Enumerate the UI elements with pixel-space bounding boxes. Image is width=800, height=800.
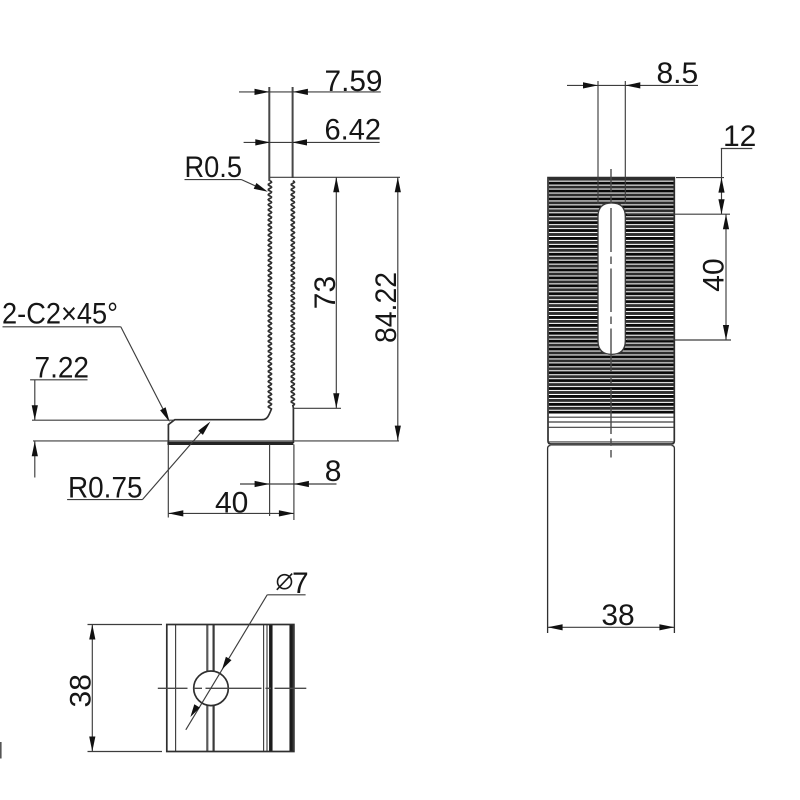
top view: flange outline bbox=[167, 625, 294, 752]
dim 8.5 right extension line bbox=[624, 81, 626, 204]
left view: flange bottom thick edge bbox=[167, 442, 293, 445]
top view: thick line f bbox=[269, 625, 273, 752]
svg-text:40: 40 bbox=[215, 487, 248, 520]
front view: lower block top edge bbox=[550, 444, 672, 446]
top view: inner line d bbox=[263, 625, 265, 752]
front view: bar outline bbox=[548, 178, 674, 444]
left view: flange top edge bbox=[175, 419, 263, 421]
svg-text:38: 38 bbox=[601, 599, 634, 632]
label R0.75 fillet with leader bbox=[67, 422, 210, 505]
left view: knurl start line / 73-84.22 top extension bbox=[270, 176, 400, 178]
svg-text:7.59: 7.59 bbox=[325, 65, 383, 98]
label dia7 hole with leader bbox=[186, 567, 309, 730]
front view: lower block left edge bbox=[548, 446, 551, 634]
svg-text:40: 40 bbox=[697, 258, 730, 291]
svg-text:2-C2×45°: 2-C2×45° bbox=[2, 298, 118, 331]
dim 84.22 total bar length bbox=[370, 177, 403, 440]
dim 7.59 neck outer width bbox=[239, 65, 383, 98]
svg-text:84.22: 84.22 bbox=[370, 272, 403, 343]
dim 8 bar thickness bbox=[240, 445, 341, 517]
left edge artifact mark bbox=[0, 742, 2, 759]
dim 7.22 flange thickness bbox=[30, 351, 174, 477]
front view: lower block right edge bbox=[671, 446, 674, 634]
top view: inner line c bbox=[213, 625, 215, 752]
front view: transition line 3 bbox=[548, 426, 674, 428]
svg-text:8.5: 8.5 bbox=[657, 57, 699, 90]
bottom extension line to 84.22 bbox=[33, 440, 399, 442]
left view: bar right serrated edge + smooth lower edge bbox=[291, 181, 294, 443]
front view: transition line 1 bbox=[548, 416, 674, 418]
dim 73 knurl length bbox=[293, 177, 342, 408]
svg-text:8: 8 bbox=[325, 455, 342, 488]
front view: line above bottom edge bbox=[548, 441, 674, 443]
left view: neck right edge bbox=[292, 87, 294, 178]
dim 8.5 left extension line bbox=[597, 81, 599, 204]
label R0.5 with leader to serration bbox=[185, 151, 268, 192]
svg-text:73: 73 bbox=[309, 276, 342, 309]
dim 40 slot length bbox=[627, 214, 731, 340]
left view: flange left chamfer C2 bbox=[168, 420, 175, 425]
left view: neck left edge bbox=[268, 87, 270, 181]
top view: inner line a bbox=[175, 625, 177, 752]
dim 38 flange width bbox=[65, 625, 163, 752]
top view: horizontal centerline bbox=[158, 687, 306, 689]
left view: flange left edge bbox=[167, 424, 169, 444]
top view: thick line g bbox=[289, 625, 293, 752]
front view: knurled area fill bbox=[549, 178, 674, 413]
label 2-C2x45 chamfer with leader bbox=[2, 298, 170, 423]
svg-text:6.42: 6.42 bbox=[325, 113, 382, 146]
top view: inner line e bbox=[266, 625, 268, 752]
svg-text:38: 38 bbox=[65, 674, 98, 707]
left view: bar left serrated edge + R fillet to flange bbox=[262, 181, 272, 420]
top view: inner line b bbox=[206, 625, 208, 752]
front view: transition line 2 bbox=[548, 421, 674, 423]
front view: slot (oblong hole) bbox=[598, 203, 625, 354]
top view: hole circle bbox=[194, 671, 229, 706]
dim 8.5 slot width bbox=[567, 57, 698, 90]
dim 38 bar width bbox=[548, 599, 675, 632]
dim 40 flange length bbox=[168, 445, 294, 521]
front view: vertical centerline bbox=[610, 169, 612, 458]
dim 12 slot top offset bbox=[627, 120, 756, 214]
dim 6.42 neck inner width bbox=[244, 113, 381, 146]
svg-text:12: 12 bbox=[723, 120, 756, 153]
